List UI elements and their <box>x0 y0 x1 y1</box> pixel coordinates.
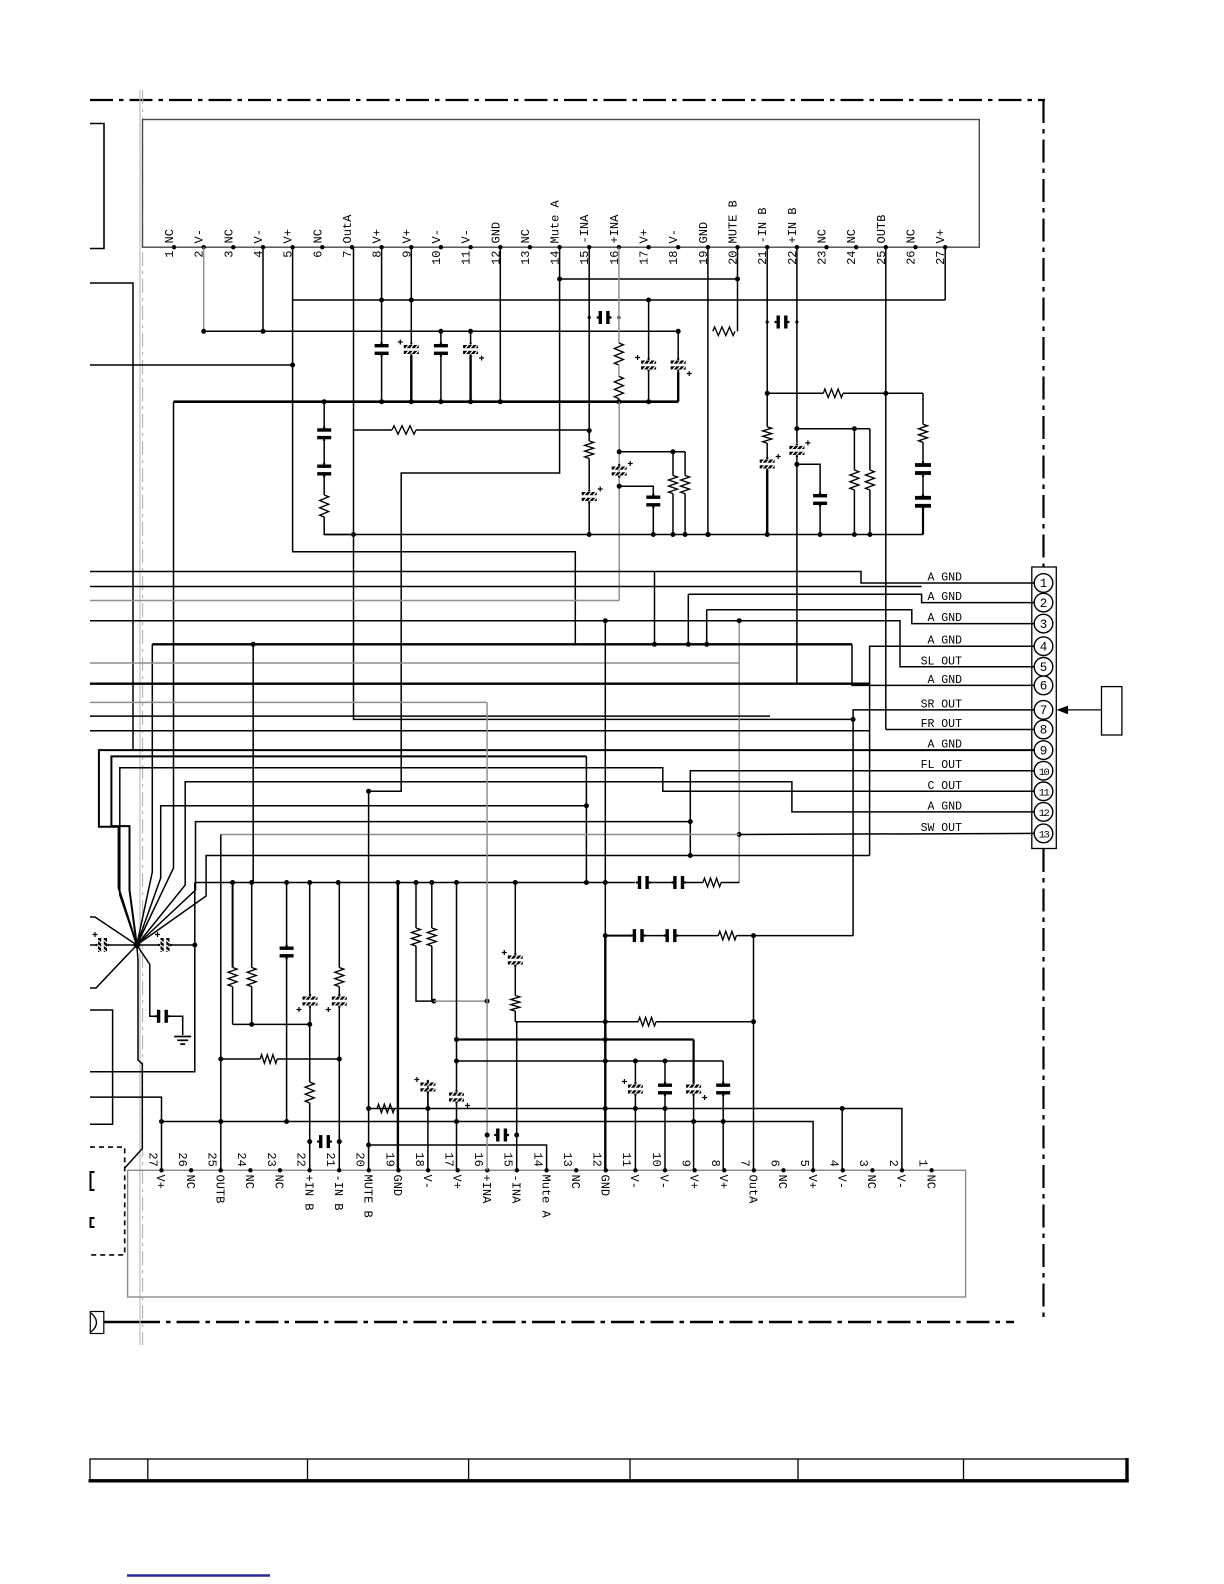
dashed block outline lower-left <box>90 1147 125 1255</box>
CN1 pin 4 A GND <box>1034 637 1053 656</box>
riser x586.4 down to RC row <box>585 756 587 882</box>
U2 pin16 +INA grey trunk <box>486 702 488 1170</box>
svg-text:NC: NC <box>242 1175 256 1189</box>
CN1 pin 12 A GND <box>1034 803 1053 822</box>
electrolytic capacitor right of star <box>137 944 158 946</box>
U2 pin 27 V+ <box>159 1168 163 1172</box>
U1 pin5 V+ long wire down <box>293 300 576 644</box>
row y805.7 <box>137 806 587 945</box>
svg-text:26: 26 <box>175 1152 189 1166</box>
riser net6 from star point <box>137 644 153 945</box>
svg-text:6: 6 <box>767 1160 781 1167</box>
op-amp IC U1 (top power amp) body <box>143 120 980 248</box>
svg-text:V-: V- <box>667 229 681 243</box>
svg-text:19: 19 <box>697 251 711 265</box>
U2 pin 12 GND <box>604 1168 608 1172</box>
net9 A GND thick staircase to CN1 pin9 <box>99 750 1034 945</box>
blue reference line bottom left <box>127 1574 270 1576</box>
U2 pin 2 V- <box>900 1168 904 1172</box>
svg-text:2: 2 <box>886 1160 900 1167</box>
U2 pin 21 -IN B <box>337 1168 341 1172</box>
net2 A GND to CN1 pin2 <box>90 586 922 588</box>
thin bus y1061 <box>457 1060 724 1062</box>
resistor to AGND a <box>672 452 674 476</box>
U1 pin 19 GND <box>706 245 710 249</box>
svg-text:4: 4 <box>827 1160 841 1167</box>
svg-text:23: 23 <box>816 251 830 265</box>
U2 pin 17 V+ <box>456 1168 460 1172</box>
svg-text:V-: V- <box>193 229 207 243</box>
resistor to AGND b <box>684 452 686 476</box>
svg-text:5: 5 <box>1040 661 1048 675</box>
U1 pin20 MUTE B wire down to mute resistor <box>737 247 739 331</box>
svg-text:27: 27 <box>145 1152 159 1166</box>
U2 pin11 electrolytic chain <box>634 1061 636 1082</box>
U1 pin21 wire <box>766 247 768 427</box>
U1 pin 27 V+ <box>943 245 947 249</box>
svg-text:18: 18 <box>667 251 681 265</box>
net10 FL OUT row y855.5 to CN1 pin10 <box>137 856 870 946</box>
svg-text:10: 10 <box>1039 767 1050 779</box>
svg-text:OUTB: OUTB <box>875 215 889 244</box>
U2 pin 26 NC <box>189 1168 193 1172</box>
svg-text:+IN B: +IN B <box>301 1175 315 1211</box>
svg-text:GND: GND <box>598 1175 612 1197</box>
svg-text:16: 16 <box>608 251 622 265</box>
svg-text:24: 24 <box>234 1152 248 1166</box>
svg-text:26: 26 <box>905 251 919 265</box>
svg-text:14: 14 <box>549 251 563 265</box>
U1 pin 1 NC <box>172 245 176 249</box>
electrolytic on grey trunk <box>612 467 627 470</box>
U1 pin4 wire <box>262 247 264 331</box>
U1 pin 14 Mute A <box>557 245 561 249</box>
U1 pin7 OutA trunk down then right to SR filter <box>354 247 854 719</box>
CN1 pin 11 C OUT <box>1034 782 1053 801</box>
svg-text:2: 2 <box>193 251 207 258</box>
fan line to left edge y917 <box>90 917 137 945</box>
AGND bus y534.5 <box>324 534 923 536</box>
svg-text:OutA: OutA <box>746 1175 760 1205</box>
svg-text:17: 17 <box>442 1152 456 1166</box>
riser x194.8 from fan row up to RC row <box>194 883 196 946</box>
thick bus to U2 pin9 y1039.5 <box>457 1038 694 1040</box>
svg-text:18: 18 <box>412 1152 426 1166</box>
svg-text:22: 22 <box>293 1152 307 1166</box>
svg-text:V+: V+ <box>638 229 652 243</box>
svg-text:7: 7 <box>738 1160 752 1167</box>
riser net1 down to thick AGND row <box>654 572 656 645</box>
U1 pin2 wire (grey) <box>203 247 205 331</box>
svg-text:22: 22 <box>786 251 800 265</box>
svg-text:14: 14 <box>530 1152 544 1166</box>
svg-text:Mute A: Mute A <box>549 199 563 243</box>
svg-text:16: 16 <box>471 1152 485 1166</box>
trunk x605.3 U2 pin12 GND <box>604 883 606 936</box>
CN1 pin 7 SR OUT <box>1034 701 1053 720</box>
star down-leg along fold to dashed block <box>125 945 143 1168</box>
svg-text:-INA: -INA <box>509 1175 523 1205</box>
U1 pin 15 -INA <box>587 245 591 249</box>
grey link y1001 to U2 pin16 trunk <box>434 1000 487 1002</box>
U2 pin 25 OUTB <box>219 1168 223 1172</box>
chain2 row y935.6: cap cap res <box>603 933 608 938</box>
U2 pin 16 +INA <box>485 1168 489 1172</box>
branch y464.3 cap to AGND <box>797 464 820 492</box>
svg-text:MUTE B: MUTE B <box>727 200 741 243</box>
row y1021.7 with resistor to U2 pin7 trunk <box>515 1021 638 1023</box>
CN1 pin 10 FL OUT <box>1034 761 1053 780</box>
U2 pin 20 MUTE B <box>367 1168 371 1172</box>
net11 C OUT to CN1 pin11 <box>120 768 1034 945</box>
svg-text:9: 9 <box>679 1160 693 1167</box>
chassis ground <box>174 1036 191 1038</box>
U1 pin 16 +INA <box>617 245 621 249</box>
U2 pin25 OUTB trunk up to SW OUT <box>220 835 222 1171</box>
table divider <box>468 1459 470 1480</box>
U2 pin 22 +IN B <box>307 1168 311 1172</box>
svg-text:GND: GND <box>697 222 711 244</box>
svg-text:NC: NC <box>775 1175 789 1189</box>
U1 pin 26 NC <box>913 245 917 249</box>
svg-text:NC: NC <box>864 1175 878 1189</box>
U2 pin 15 -INA <box>515 1168 519 1172</box>
CN1 pin 8 FR OUT <box>1034 720 1053 739</box>
electrolytic capacitor under pin11 <box>470 331 472 343</box>
grey line y600.5 <box>90 600 619 602</box>
pin22 electrolytic <box>789 446 804 449</box>
U1 pin 23 NC <box>824 245 828 249</box>
electrolytic capacitor under pin9 <box>410 247 412 343</box>
svg-text:NC: NC <box>816 229 830 243</box>
svg-text:4: 4 <box>252 251 266 258</box>
svg-text:Mute A: Mute A <box>538 1175 552 1219</box>
net12 A GND to CN1 pin12 <box>137 782 1034 945</box>
arrow to CN1 pin 7 <box>1065 709 1102 711</box>
svg-text:V+: V+ <box>153 1175 167 1189</box>
page border dash-dot right lower <box>1042 849 1044 1322</box>
svg-text:NC: NC <box>905 229 919 243</box>
U2 pin21 -IN B column: res pcap <box>338 883 340 968</box>
net4 A GND CN1 pin4 down to star row <box>870 646 1034 855</box>
electrolytic capacitor left of star <box>90 944 96 946</box>
svg-text:23: 23 <box>264 1152 278 1166</box>
svg-text:25: 25 <box>205 1152 219 1166</box>
page border dash-dot right upper <box>1042 100 1044 567</box>
wire from left edge y1071.8 up to star row <box>90 945 195 1072</box>
mute join row y1145 to U2 pin14 <box>369 1145 547 1170</box>
U2 pin18 V- electrolytic <box>427 1080 429 1109</box>
U2 pin 4 V- <box>841 1168 845 1172</box>
chain x286.6: cap down to row Y2 <box>286 883 288 946</box>
capacitor C under pin10 <box>440 331 442 344</box>
svg-text:V-: V- <box>835 1175 849 1189</box>
coupling capacitor between pins 15-16 <box>599 311 602 324</box>
U2 pin 11 V- <box>633 1168 637 1172</box>
svg-text:-IN B: -IN B <box>331 1175 345 1211</box>
svg-text:NC: NC <box>568 1175 582 1189</box>
U2 pin 19 GND <box>396 1168 400 1172</box>
svg-text:GND: GND <box>489 222 503 244</box>
svg-text:-INA: -INA <box>578 214 592 244</box>
svg-text:7: 7 <box>1040 704 1048 718</box>
table divider <box>307 1459 309 1480</box>
branch y428.7 two resistors to AGND <box>797 428 870 430</box>
chain1 capacitor a <box>638 876 641 889</box>
svg-text:21: 21 <box>756 251 770 265</box>
U2 pin 10 V- <box>663 1168 667 1172</box>
grey trunk continues below GND bus to grey row <box>618 402 620 601</box>
U1 pin 7 OutA <box>350 245 354 249</box>
off-page arrow box at CN1 pin7 <box>1102 687 1122 735</box>
resistor U2 pin20-pin19 <box>377 1104 395 1113</box>
connector clip glyph left b <box>91 1218 95 1227</box>
table divider <box>147 1459 149 1480</box>
line y730.8 <box>90 730 870 732</box>
two resistors x232.6 x252.8 from RC row down <box>230 880 235 885</box>
connector clip glyph left a <box>91 1172 95 1190</box>
page border dash-dot top <box>90 99 1045 101</box>
row Y2 y1121.5 to U2 pin5 <box>162 1122 814 1171</box>
svg-text:3: 3 <box>1040 618 1048 632</box>
U2 pin 7 OutA <box>752 1168 756 1172</box>
U2 pin 5 V+ <box>811 1168 815 1172</box>
branch from SL OUT row down to RC row at U2 pin12 trunk <box>604 621 606 883</box>
off-page bracket top-left <box>90 124 104 249</box>
CN1 pin 2 A GND <box>1034 593 1053 612</box>
svg-text:V+: V+ <box>449 1175 463 1189</box>
U1 pin 20 MUTE B <box>735 245 739 249</box>
svg-text:27: 27 <box>934 251 948 265</box>
net6 A GND thick to CN1 pin6 <box>152 643 852 645</box>
svg-text:11: 11 <box>460 251 474 265</box>
U2 pin 6 NC <box>781 1168 785 1172</box>
off-page corner bracket left (y1010-1124) <box>90 1010 113 1124</box>
two resistors x415/x431 tops at RC row <box>415 883 417 929</box>
table divider <box>629 1459 631 1480</box>
thick line y683.7 <box>90 683 870 685</box>
U2 pin9 electrolytic chain <box>686 1085 701 1088</box>
chain1 resistor <box>703 878 721 887</box>
svg-text:5: 5 <box>282 251 296 258</box>
U2 pin15 -INA column: pcap res <box>514 883 516 954</box>
U1 pin 9 V+ <box>409 245 413 249</box>
U2 pin 24 NC <box>248 1168 252 1172</box>
capacitor C under pin8 <box>381 247 383 344</box>
svg-text:+IN B: +IN B <box>786 207 800 243</box>
wire from left edge y283 to vertical x133 <box>90 283 133 750</box>
net5 SL OUT to CN1 pin5 <box>90 621 1034 667</box>
svg-text:19: 19 <box>382 1152 396 1166</box>
svg-text:8: 8 <box>371 251 385 258</box>
svg-text:15: 15 <box>578 251 592 265</box>
svg-text:GND: GND <box>390 1175 404 1197</box>
star ground node <box>134 942 140 948</box>
svg-text:NC: NC <box>272 1175 286 1189</box>
svg-text:V+: V+ <box>805 1175 819 1189</box>
svg-text:V+: V+ <box>686 1175 700 1189</box>
V+ bus y300 pins 5,8,9,17,27 <box>292 247 294 300</box>
net1 A GND to CN1 pin1 <box>90 572 1034 584</box>
svg-text:25: 25 <box>875 251 889 265</box>
svg-text:24: 24 <box>845 251 859 265</box>
svg-text:4: 4 <box>1040 640 1048 654</box>
svg-text:V-: V- <box>420 1175 434 1189</box>
U1 pin 24 NC <box>854 245 858 249</box>
riser net2 down to thick AGND row <box>687 594 689 644</box>
svg-text:OUTB: OUTB <box>212 1175 226 1204</box>
svg-text:V+: V+ <box>371 229 385 243</box>
svg-text:NC: NC <box>222 229 236 243</box>
V- bus <box>204 330 679 332</box>
U1 pin 6 NC <box>320 245 324 249</box>
resistor pin16 b <box>614 376 623 398</box>
svg-text:13: 13 <box>519 251 533 265</box>
svg-text:5: 5 <box>797 1160 811 1167</box>
mute net: U1 pin14 trunk down to U2 pin20 <box>369 247 560 791</box>
right chain x923: res cap cap to AGND <box>922 393 924 424</box>
svg-text:V-: V- <box>430 229 444 243</box>
U1 pin17 electrolytic to GND bus <box>648 300 650 358</box>
U2 pin 3 NC <box>870 1168 874 1172</box>
svg-text:OutA: OutA <box>341 214 355 244</box>
U2 pin 23 NC <box>278 1168 282 1172</box>
page border dash-dot bottom <box>104 1321 137 1324</box>
svg-text:V-: V- <box>627 1175 641 1189</box>
svg-text:9: 9 <box>400 251 414 258</box>
U1 pin18 electrolytic thick to GND bus end <box>677 331 679 358</box>
net8 FR OUT (from U1 pin25) <box>886 729 1034 731</box>
GND bus thick y401.7 <box>174 400 679 403</box>
U1 pin19 GND trunk down to AGND bus <box>707 247 709 534</box>
U1 pin16 +INA grey trunk <box>618 247 620 343</box>
svg-text:10: 10 <box>430 251 444 265</box>
U1 pin 25 OUTB <box>884 245 888 249</box>
U1 pin22 wire down <box>796 247 798 443</box>
resistor pin16 a <box>614 343 623 365</box>
CN1 pin 9 A GND <box>1034 741 1053 760</box>
svg-text:V+: V+ <box>282 229 296 243</box>
coupling capacitor between pins 21-22 <box>777 316 780 329</box>
svg-text:NC: NC <box>311 229 325 243</box>
svg-text:13: 13 <box>560 1152 574 1166</box>
row y821.6 <box>137 822 691 945</box>
net13 SW OUT grey from U2 pin25 trunk <box>739 833 1034 834</box>
svg-text:NC: NC <box>183 1175 197 1189</box>
svg-text:3: 3 <box>222 251 236 258</box>
row y1024.4 to U2 pin22 <box>233 1023 310 1025</box>
U2 pin20 MUTE B trunk <box>368 791 370 1170</box>
U2 pin7 OutA trunk <box>753 936 755 1171</box>
svg-text:10: 10 <box>649 1152 663 1166</box>
net7 SR OUT to CN1 pin7 via OutA riser <box>853 710 1034 936</box>
svg-text:20: 20 <box>727 251 741 265</box>
svg-text:V-: V- <box>894 1175 908 1189</box>
U1 pin25 OUTB trunk down to FR OUT <box>885 247 887 729</box>
U1 pin 4 V- <box>261 245 265 249</box>
U2 pin 14 Mute A <box>544 1168 548 1172</box>
U1 pin 5 V+ <box>290 245 294 249</box>
svg-text:9: 9 <box>1040 744 1048 758</box>
svg-text:V+: V+ <box>716 1175 730 1189</box>
U1 pin15 -INA chain: res + electrolytic to AGND <box>588 247 590 441</box>
op-amp IC U2 (bottom power amp) body <box>128 1170 966 1297</box>
svg-text:11: 11 <box>1039 788 1050 800</box>
svg-text:13: 13 <box>1039 830 1050 842</box>
svg-text:V+: V+ <box>934 229 948 243</box>
line y716.1 <box>90 715 770 717</box>
pin21 res + electrolytic chain <box>763 427 772 443</box>
svg-text:6: 6 <box>1040 680 1048 694</box>
U1 pin12 GND wire <box>499 247 501 402</box>
table divider <box>797 1459 799 1480</box>
fold line grey solid <box>139 90 141 1345</box>
grey branch from SL OUT down to RC chain1 <box>738 621 740 883</box>
CN1 pin 13 SW OUT <box>1034 824 1053 843</box>
fold line grey dash-dot <box>142 90 144 1345</box>
svg-text:-IN B: -IN B <box>756 207 770 243</box>
RC row y882.5 (chain1) <box>195 882 635 884</box>
svg-text:12: 12 <box>489 251 503 265</box>
chain1 capacitor b <box>673 876 676 889</box>
coupling capacitor U2 pins 15-16 <box>496 1129 499 1142</box>
svg-text:V+: V+ <box>400 229 414 243</box>
U2 pin 1 NC <box>929 1168 933 1172</box>
grey line y702.4 to U2 pin16 trunk <box>90 701 487 703</box>
U2 pin 9 V+ <box>693 1168 697 1172</box>
U1 pin 3 NC <box>231 245 235 249</box>
svg-text:V-: V- <box>460 229 474 243</box>
wire from left edge y365 to U1 pin5 <box>90 364 293 366</box>
svg-text:1: 1 <box>915 1160 929 1167</box>
title block table <box>90 1459 1128 1480</box>
svg-text:NC: NC <box>163 229 177 243</box>
row Y1 right portion to U2 pins 4,2 <box>841 1109 843 1171</box>
U2 pin 18 V- <box>426 1168 430 1172</box>
CN1 pin 3 A GND <box>1034 614 1053 633</box>
connector CN1 stub below <box>1043 849 1045 871</box>
svg-text:8: 8 <box>708 1160 722 1167</box>
feedback line y430 with resistor (pin7 to pin15) <box>353 429 392 431</box>
svg-text:6: 6 <box>311 251 325 258</box>
svg-text:15: 15 <box>501 1152 515 1166</box>
star to filter cap and ground <box>137 945 156 1016</box>
resistor pin18-pin20 <box>713 327 735 336</box>
svg-text:12: 12 <box>590 1152 604 1166</box>
svg-text:NC: NC <box>923 1175 937 1189</box>
coupling capacitor U2 pins 21-22 <box>319 1135 322 1148</box>
U1 pin 12 GND <box>498 245 502 249</box>
svg-text:V-: V- <box>252 229 266 243</box>
svg-text:+INA: +INA <box>479 1175 493 1205</box>
U1 pin 17 V+ <box>646 245 650 249</box>
fan line to left edge y988 <box>90 945 137 988</box>
svg-text:1: 1 <box>163 251 177 258</box>
svg-text:2: 2 <box>1040 597 1048 611</box>
branch y486.2 to cap <box>619 486 653 495</box>
svg-text:17: 17 <box>638 251 652 265</box>
svg-text:8: 8 <box>1040 724 1048 738</box>
U1 pin 2 V- <box>202 245 206 249</box>
branch y451.8 to two resistors <box>619 451 685 453</box>
svg-text:V-: V- <box>657 1175 671 1189</box>
net3 A GND to CN1 pin3 <box>707 610 1034 624</box>
U1 pin 11 V- <box>468 245 472 249</box>
U2 pin22 +IN B column: pcap res <box>309 883 311 996</box>
svg-text:NC: NC <box>845 229 859 243</box>
row y756.4 thick staircase <box>111 756 586 945</box>
row Y1 y1108.5 <box>369 1109 902 1171</box>
